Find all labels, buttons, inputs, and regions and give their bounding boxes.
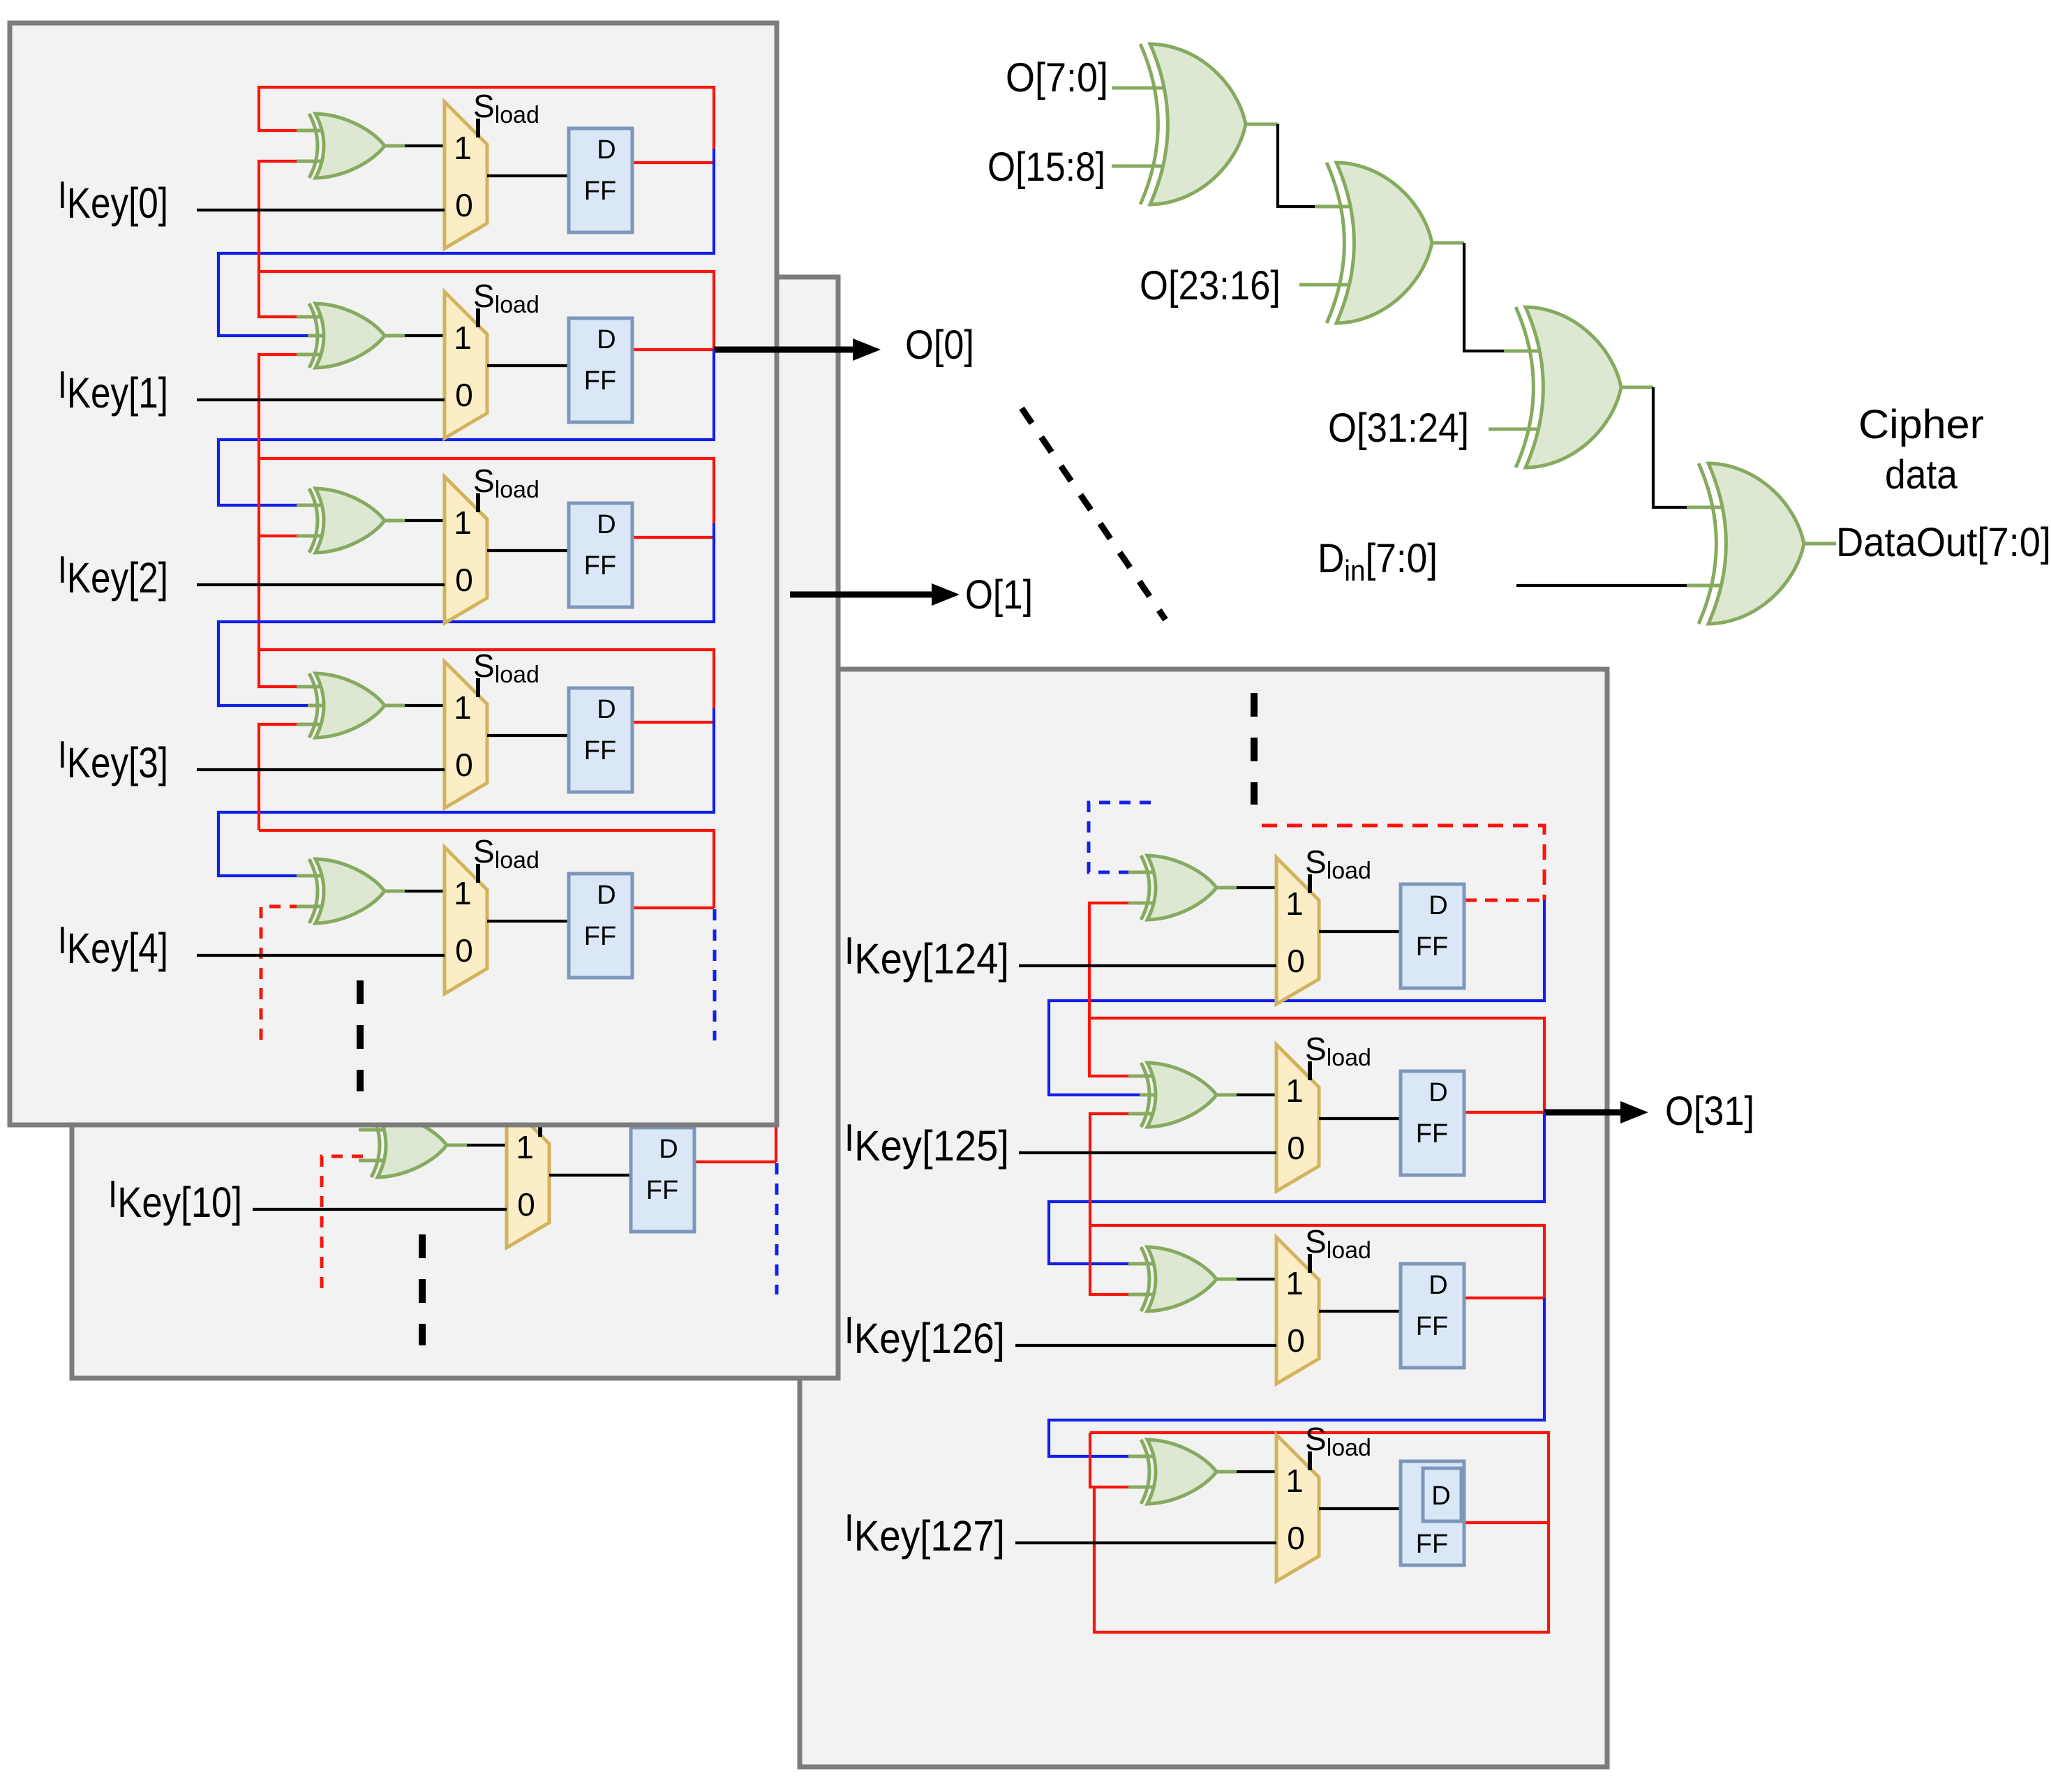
wire red feedback loop IKey[4] bbox=[259, 830, 714, 908]
wire XOR C output to XOR D bbox=[1621, 387, 1725, 507]
svg-text:FF: FF bbox=[1416, 1530, 1448, 1559]
svg-text:IKey[125]: IKey[125] bbox=[844, 1116, 1009, 1170]
svg-text:D: D bbox=[1429, 891, 1447, 920]
Sload select tick IKey[127] bbox=[1308, 1451, 1312, 1470]
wire red XOR bottom input IKey[124] down to loop IKey[125] bbox=[1089, 903, 1133, 1076]
wire input Key[3] to mux 0 bbox=[197, 768, 445, 771]
XOR gate cascade B bbox=[1327, 163, 1432, 323]
svg-text:FF: FF bbox=[584, 366, 616, 396]
FF D input port box IKey[127] bbox=[1423, 1468, 1461, 1521]
wire blue FF IKey[125] output rail to XOR IKey[126] bbox=[1049, 1112, 1544, 1264]
svg-text:1: 1 bbox=[454, 130, 472, 166]
wire dashed red into XOR IKey[10] bbox=[322, 1156, 363, 1291]
svg-text:1: 1 bbox=[454, 689, 472, 726]
module box byte3 (IKey[124..127]) bbox=[800, 669, 1607, 1767]
wire input Key[127] to mux 0 bbox=[1015, 1541, 1276, 1544]
dashed continuation below IKey[10] bbox=[419, 1234, 426, 1345]
svg-text:0: 0 bbox=[455, 377, 473, 413]
D flip-flop IKey[2] bbox=[569, 503, 632, 607]
XOR gate IKey[10] bbox=[371, 1113, 447, 1177]
wire input O[15:8] to XOR A bbox=[1112, 165, 1167, 168]
wire mux output to FF D IKey[3] bbox=[487, 734, 569, 737]
svg-text:D: D bbox=[1429, 1271, 1447, 1300]
XOR input stubs IKey[2] bbox=[297, 505, 321, 536]
svg-text:1: 1 bbox=[1285, 1073, 1304, 1109]
XOR input stubs IKey[4] bbox=[297, 876, 321, 906]
wire input Key[4] to mux 0 bbox=[197, 954, 445, 957]
svg-text:FF: FF bbox=[1416, 932, 1448, 962]
svg-text:IKey[124]: IKey[124] bbox=[844, 929, 1009, 983]
wire XOR output to mux IKey[10] bbox=[447, 1144, 507, 1147]
wire XOR output to mux IKey[126] bbox=[1216, 1278, 1276, 1281]
svg-text:O[31]: O[31] bbox=[1665, 1089, 1754, 1134]
wire blue FF IKey[1] output rail to XOR IKey[2] bbox=[218, 350, 714, 505]
wire input O[7:0] to XOR A bbox=[1112, 87, 1167, 90]
wire mux output to FF D IKey[1] bbox=[487, 364, 569, 367]
svg-text:O[1]: O[1] bbox=[965, 572, 1033, 618]
Sload select tick IKey[124] bbox=[1308, 874, 1312, 893]
wire mux output to FF D IKey[126] bbox=[1319, 1310, 1401, 1313]
XOR input stubs IKey[3] bbox=[297, 687, 323, 724]
mux 2:1 IKey[2] bbox=[445, 477, 487, 623]
svg-text:FF: FF bbox=[584, 177, 616, 206]
dashed continuation (cells above IKey[124]) bbox=[1251, 693, 1258, 805]
wire red feedback loop IKey[0] bbox=[259, 87, 714, 149]
svg-text:0: 0 bbox=[455, 932, 473, 969]
Sload select tick IKey[0] bbox=[476, 119, 480, 137]
XOR input stubs IKey[0] bbox=[297, 130, 321, 161]
wire red XOR bottom input IKey[1] down through loops to XOR IKey[3] top bbox=[259, 354, 301, 687]
wire blue FF IKey[126] output rail to XOR IKey[127] bbox=[1049, 1298, 1544, 1456]
wire input Key[126] to mux 0 bbox=[1015, 1344, 1276, 1347]
svg-text:FF: FF bbox=[584, 922, 616, 951]
svg-text:D: D bbox=[597, 695, 616, 724]
svg-text:O[23:16]: O[23:16] bbox=[1140, 263, 1281, 308]
wire XOR B output to XOR C bbox=[1432, 243, 1542, 351]
wire dashed red FF output IKey[124] bbox=[1464, 899, 1544, 902]
XOR gate IKey[125] bbox=[1141, 1063, 1216, 1127]
svg-text:IKey[2]: IKey[2] bbox=[58, 548, 168, 602]
XOR input stubs IKey[125] bbox=[1128, 1076, 1155, 1114]
svg-text:0: 0 bbox=[1287, 943, 1305, 979]
mux 2:1 IKey[4] bbox=[445, 847, 487, 994]
wire input Key[10] to mux 0 bbox=[253, 1208, 507, 1211]
D flip-flop IKey[125] bbox=[1401, 1071, 1464, 1175]
wire mux output to FF D IKey[0] bbox=[487, 174, 569, 177]
svg-text:1: 1 bbox=[454, 875, 472, 911]
wire red feedback loop IKey[2] bbox=[259, 458, 714, 523]
svg-text:FF: FF bbox=[1416, 1119, 1448, 1149]
XOR input stubs IKey[124] bbox=[1128, 872, 1153, 903]
wire red feedback loop IKey[126] bbox=[1089, 1225, 1544, 1298]
XOR gate IKey[126] bbox=[1141, 1247, 1216, 1311]
svg-text:O[7:0]: O[7:0] bbox=[1006, 55, 1108, 100]
wire red FF output IKey[127] bbox=[1464, 1521, 1549, 1524]
module box byte0 (IKey[0..7]) bbox=[10, 23, 777, 1125]
wire XOR output to mux IKey[4] bbox=[385, 890, 445, 893]
wire input O[31:24] to XOR C bbox=[1489, 428, 1542, 431]
Sload select tick IKey[126] bbox=[1308, 1254, 1312, 1273]
wire red FF output IKey[10] bbox=[694, 1160, 776, 1163]
svg-text:DataOut[7:0]: DataOut[7:0] bbox=[1836, 520, 2051, 565]
svg-text:IKey[126]: IKey[126] bbox=[844, 1308, 1005, 1362]
XOR gate IKey[3] bbox=[309, 673, 385, 738]
svg-text:0: 0 bbox=[1287, 1322, 1305, 1359]
wire output arrow O[31] bbox=[1544, 1101, 1648, 1123]
svg-text:0: 0 bbox=[455, 187, 473, 223]
wire dashed red feedback loop IKey[124] bbox=[1262, 826, 1544, 900]
wire red feedback loop IKey[125] bbox=[1089, 1018, 1544, 1112]
svg-text:O[31:24]: O[31:24] bbox=[1328, 405, 1469, 451]
mux 2:1 IKey[3] bbox=[445, 662, 487, 808]
mux 2:1 IKey[126] bbox=[1276, 1237, 1319, 1384]
wire red XOR bottom input IKey[0] down through loop IKey[1] to XOR IKey[1] top bbox=[259, 161, 311, 317]
XOR gate IKey[0] bbox=[309, 114, 385, 178]
wire mux output to FF D IKey[2] bbox=[487, 549, 569, 552]
wire XOR D output DataOut bbox=[1804, 542, 1836, 546]
svg-text:FF: FF bbox=[1416, 1312, 1448, 1341]
svg-text:0: 0 bbox=[517, 1186, 535, 1223]
svg-text:0: 0 bbox=[455, 747, 473, 783]
wire red FF output IKey[2] bbox=[632, 536, 714, 539]
wire output arrow O[0] bbox=[714, 338, 881, 361]
svg-text:Din[7:0]: Din[7:0] bbox=[1318, 536, 1438, 587]
mux 2:1 IKey[125] bbox=[1276, 1045, 1319, 1191]
mux 2:1 IKey[124] bbox=[1276, 858, 1319, 1004]
wire XOR output to mux IKey[0] bbox=[385, 144, 445, 148]
wire input Key[0] to mux 0 bbox=[197, 209, 445, 211]
svg-text:0: 0 bbox=[455, 562, 473, 598]
D flip-flop IKey[10] bbox=[631, 1128, 694, 1232]
XOR gate IKey[2] bbox=[309, 488, 385, 553]
XOR gate IKey[127] bbox=[1141, 1440, 1216, 1504]
wire red FF output IKey[1] bbox=[632, 348, 714, 351]
wire blue FF IKey[2] output rail to XOR IKey[3] bbox=[218, 523, 714, 705]
wire red FF output IKey[3] bbox=[632, 721, 714, 724]
XOR gate IKey[4] bbox=[309, 859, 385, 923]
mux 2:1 IKey[0] bbox=[445, 102, 487, 248]
wire red FF output IKey[125] bbox=[1464, 1111, 1544, 1114]
svg-text:0: 0 bbox=[1287, 1520, 1305, 1556]
wire mux output to FF D IKey[10] bbox=[549, 1174, 631, 1177]
XOR gate cascade A bbox=[1140, 44, 1246, 204]
svg-text:D: D bbox=[597, 325, 616, 354]
svg-text:O[0]: O[0] bbox=[905, 322, 974, 368]
D flip-flop IKey[126] bbox=[1401, 1264, 1464, 1368]
wire input Din[7:0] to XOR D bbox=[1516, 584, 1725, 587]
wire XOR output to mux IKey[124] bbox=[1216, 886, 1276, 890]
wire red XOR bottom input IKey[2] tap bbox=[259, 535, 301, 537]
svg-text:0: 0 bbox=[1287, 1130, 1305, 1166]
D flip-flop IKey[127] bbox=[1401, 1461, 1464, 1565]
svg-text:D: D bbox=[597, 881, 616, 910]
svg-text:D: D bbox=[597, 135, 616, 165]
wire XOR A output to XOR B bbox=[1246, 124, 1353, 207]
D flip-flop IKey[4] bbox=[569, 874, 632, 978]
dashed ellipsis diagonal (repeated bytes) bbox=[1022, 408, 1165, 620]
svg-text:1: 1 bbox=[454, 320, 472, 356]
svg-text:IKey[4]: IKey[4] bbox=[58, 918, 168, 972]
wire red FF output IKey[4] bbox=[632, 906, 714, 909]
wire red XOR bottom input IKey[125] down through loop IKey[126] to XOR IKey[126] bbox=[1090, 1114, 1133, 1294]
XOR input stubs IKey[1] bbox=[297, 317, 323, 354]
wire blue FF IKey[0] output rail to XOR IKey[1] bbox=[218, 149, 714, 336]
wire mux output to FF D IKey[124] bbox=[1319, 930, 1401, 933]
wire blue FF IKey[3] output rail to XOR IKey[4] bbox=[218, 708, 714, 876]
wire red feedback loop IKey[3] bbox=[259, 650, 714, 708]
mux 2:1 IKey[127] bbox=[1276, 1435, 1319, 1581]
Sload select tick IKey[125] bbox=[1308, 1061, 1312, 1080]
wire dashed red into XOR IKey[4] bbox=[261, 906, 301, 1042]
svg-text:Cipher: Cipher bbox=[1858, 402, 1984, 447]
Sload select tick IKey[10] bbox=[538, 1118, 542, 1137]
wire input Key[124] to mux 0 bbox=[1019, 964, 1276, 967]
D flip-flop IKey[3] bbox=[569, 688, 632, 792]
svg-text:data: data bbox=[1885, 452, 1958, 498]
wire red vertical FF IKey[10] loop remnant bbox=[775, 1123, 777, 1162]
wire mux output to FF D IKey[4] bbox=[487, 920, 569, 923]
svg-text:IKey[1]: IKey[1] bbox=[58, 363, 168, 417]
module box byte1 (IKey[8..15], IKey[10] visible) bbox=[72, 277, 838, 1378]
svg-text:IKey[3]: IKey[3] bbox=[58, 733, 168, 786]
wire input Key[1] to mux 0 bbox=[197, 398, 445, 401]
wire red FF output IKey[0] bbox=[632, 161, 714, 164]
wire red XOR bottom input IKey[3] down to loop IKey[4] bbox=[259, 724, 301, 830]
wire XOR output to mux IKey[2] bbox=[385, 519, 445, 523]
wire dashed blue from hidden cell to XOR IKey[124] bbox=[1089, 802, 1151, 872]
XOR gate cascade C bbox=[1516, 307, 1621, 468]
wire output arrow O[1] bbox=[790, 583, 960, 606]
D flip-flop IKey[0] bbox=[569, 128, 632, 232]
XOR input stubs IKey[10] bbox=[359, 1130, 383, 1160]
XOR gate IKey[124] bbox=[1141, 856, 1216, 920]
svg-text:1: 1 bbox=[516, 1129, 534, 1165]
XOR gate IKey[1] bbox=[309, 304, 385, 368]
wire red FF output IKey[126] bbox=[1464, 1297, 1544, 1299]
wire XOR output to mux IKey[125] bbox=[1216, 1093, 1276, 1097]
wire red XOR bottom input IKey[127] bbox=[1090, 1433, 1133, 1487]
Sload select tick IKey[3] bbox=[476, 678, 480, 697]
dashed continuation below IKey[4] bbox=[357, 980, 364, 1091]
XOR input stubs IKey[126] bbox=[1128, 1264, 1153, 1294]
svg-text:O[15:8]: O[15:8] bbox=[987, 144, 1105, 190]
svg-text:1: 1 bbox=[1285, 886, 1304, 922]
svg-text:FF: FF bbox=[584, 551, 616, 581]
wire XOR output to mux IKey[3] bbox=[385, 704, 445, 708]
svg-text:D: D bbox=[1429, 1078, 1447, 1107]
wire red loop IKey[127] top bbox=[1090, 1433, 1549, 1523]
wire XOR output to mux IKey[127] bbox=[1216, 1470, 1276, 1474]
svg-text:D: D bbox=[1431, 1481, 1450, 1511]
svg-text:D: D bbox=[659, 1135, 678, 1164]
mux 2:1 IKey[1] bbox=[445, 292, 487, 438]
mux 2:1 IKey[10] bbox=[507, 1101, 549, 1248]
Sload select tick IKey[2] bbox=[476, 493, 480, 512]
svg-text:IKey[10]: IKey[10] bbox=[108, 1172, 242, 1226]
D flip-flop IKey[1] bbox=[569, 318, 632, 422]
Sload select tick IKey[4] bbox=[476, 864, 480, 883]
wire blue FF IKey[124] output rail to XOR IKey[125] bbox=[1049, 900, 1544, 1095]
XOR input stubs IKey[127] bbox=[1128, 1456, 1153, 1487]
svg-text:1: 1 bbox=[1285, 1463, 1304, 1499]
wire input Key[125] to mux 0 bbox=[1019, 1151, 1276, 1154]
svg-text:FF: FF bbox=[646, 1176, 678, 1205]
svg-text:IKey[127]: IKey[127] bbox=[844, 1506, 1005, 1560]
svg-text:D: D bbox=[597, 510, 616, 539]
Sload select tick IKey[1] bbox=[476, 308, 480, 327]
XOR gate cascade D bbox=[1699, 463, 1804, 624]
wire input Key[2] to mux 0 bbox=[197, 583, 445, 586]
wire input O[23:16] to XOR B bbox=[1299, 283, 1353, 287]
wire XOR output to mux IKey[1] bbox=[385, 334, 445, 338]
wire red feedback loop IKey[127] bottom bbox=[1094, 1488, 1549, 1632]
svg-text:IKey[0]: IKey[0] bbox=[58, 173, 168, 227]
wire mux output to FF D IKey[127] bbox=[1319, 1507, 1401, 1510]
wire dashed blue below FF IKey[10] bbox=[775, 1163, 779, 1294]
svg-text:1: 1 bbox=[454, 505, 472, 541]
svg-text:1: 1 bbox=[1285, 1265, 1304, 1301]
svg-text:FF: FF bbox=[584, 736, 616, 766]
wire mux output to FF D IKey[125] bbox=[1319, 1117, 1401, 1120]
D flip-flop IKey[124] bbox=[1401, 884, 1464, 988]
wire red feedback loop IKey[1] bbox=[259, 271, 714, 350]
wire dashed blue below FF IKey[4] bbox=[713, 909, 717, 1040]
